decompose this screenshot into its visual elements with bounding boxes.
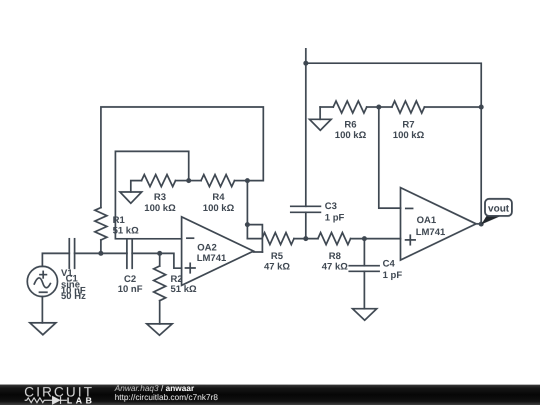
junction R6/R7 node D [376, 105, 381, 110]
junction OA2 output [245, 222, 250, 227]
svg-text:R7: R7 [402, 119, 414, 130]
CircuitLab logo [24, 384, 95, 405]
wire top feedback to output node [306, 63, 481, 224]
svg-text:R3: R3 [154, 192, 166, 203]
wire V1 top elbow to C1 [42, 253, 69, 266]
wire R3 right lead [176, 180, 189, 182]
capacitor C3 [291, 206, 321, 212]
wire R7 right lead to output vertical [424, 106, 481, 108]
svg-text:10 nF: 10 nF [118, 284, 143, 295]
wire node B down to R2 [159, 253, 161, 266]
svg-text:C3: C3 [325, 201, 337, 212]
svg-text:1 pF: 1 pF [325, 213, 345, 224]
wire V1 bottom to ground [41, 297, 43, 323]
junction node E (R8/C4) [362, 236, 367, 241]
svg-text:1 pF: 1 pF [383, 270, 403, 281]
resistor R2 (vertical) [154, 266, 166, 301]
svg-text:100 kΩ: 100 kΩ [144, 203, 176, 214]
junction node C (R5/R8/C3) [303, 236, 308, 241]
svg-text:C4: C4 [383, 258, 396, 269]
wire R6 right lead to node D [367, 106, 379, 108]
resistor R7 [392, 101, 425, 113]
wire C1 to node A [75, 252, 127, 254]
svg-text:vout: vout [488, 204, 510, 215]
wire node E down to C4 [363, 239, 365, 266]
svg-text:51 kΩ: 51 kΩ [170, 284, 196, 295]
resistor R3 [142, 175, 176, 187]
svg-text:OA1: OA1 [417, 215, 437, 226]
resistor R4 [201, 175, 235, 187]
wire OA2 output apex [253, 251, 262, 253]
capacitor C2 [127, 240, 132, 269]
ground below R2 [147, 324, 172, 335]
wire R4 node down to OA2 output node [246, 181, 248, 239]
svg-text:47 kΩ: 47 kΩ [322, 261, 348, 272]
wire OA1 output apex to node [476, 223, 481, 225]
svg-text:LM741: LM741 [416, 227, 446, 238]
wire C3 up to top feedback wire [305, 49, 307, 207]
svg-text:51 kΩ: 51 kΩ [113, 226, 139, 237]
wire R3 left lead to ground elbow [131, 181, 142, 192]
wire node C up to C3 [305, 212, 307, 238]
svg-text:100 kΩ: 100 kΩ [203, 203, 235, 214]
svg-text:47 kΩ: 47 kΩ [264, 261, 290, 272]
svg-text:R6: R6 [344, 119, 356, 130]
ground below C4 [353, 309, 377, 321]
wire C2 to OA2 + input elbow [132, 253, 181, 268]
ground at R6 [319, 107, 321, 119]
wire outer feedback loop: node A up to R1, top, right side down to R4 [101, 107, 263, 208]
svg-text:R1: R1 [113, 215, 126, 226]
wire R4 left lead [189, 180, 201, 182]
wire R6 left lead [320, 106, 333, 108]
capacitor C1 [69, 239, 74, 269]
resistor R6 [333, 101, 367, 113]
svg-text:100 kΩ: 100 kΩ [335, 130, 367, 141]
node vout flag [481, 216, 501, 225]
junction OA1 output [479, 222, 484, 227]
svg-text:10 nF: 10 nF [61, 285, 86, 296]
op-amp OA1 [400, 188, 476, 260]
svg-text:C1: C1 [66, 274, 79, 285]
junction node B (C2/R2) [157, 251, 162, 256]
capacitor C4 [349, 266, 379, 272]
svg-text:100 kΩ: 100 kΩ [393, 130, 425, 141]
svg-text:LM741: LM741 [197, 253, 227, 264]
resistor R1 (vertical) [95, 208, 107, 240]
wire R4 right lead [235, 180, 248, 182]
junction R7/output vertical [479, 105, 484, 110]
junction R4 right [245, 178, 250, 183]
svg-text:OA2: OA2 [197, 243, 217, 254]
ground below V1 [30, 323, 56, 335]
svg-text:R4: R4 [212, 192, 225, 203]
wire R7 left lead [379, 106, 392, 108]
wire R2 to ground [159, 301, 161, 324]
svg-text:LAB: LAB [67, 396, 96, 405]
junction top feedback [303, 61, 308, 66]
wire C4 to ground [363, 271, 365, 308]
wire R1 bottom lead to node A [100, 240, 102, 253]
junction R3/R4 [186, 178, 191, 183]
wire R5 right lead to node C [294, 238, 318, 240]
voltage source V1 [27, 266, 57, 296]
wire R8 right lead to OA1 + input [351, 238, 401, 240]
wire OA2 output rectangle [247, 225, 262, 252]
op-amp OA2 [182, 217, 254, 286]
wire inner feedback loop: R3/R4 node up over to OA2 - input [115, 151, 188, 238]
ground at R3 [120, 192, 142, 203]
resistor R8 [318, 233, 351, 245]
junction node A (C1/R1) [98, 251, 103, 256]
wire node D down to OA1 - input [379, 107, 401, 208]
svg-text:http://circuitlab.com/c7nk7r8: http://circuitlab.com/c7nk7r8 [115, 392, 219, 402]
resistor R5 [262, 233, 294, 245]
